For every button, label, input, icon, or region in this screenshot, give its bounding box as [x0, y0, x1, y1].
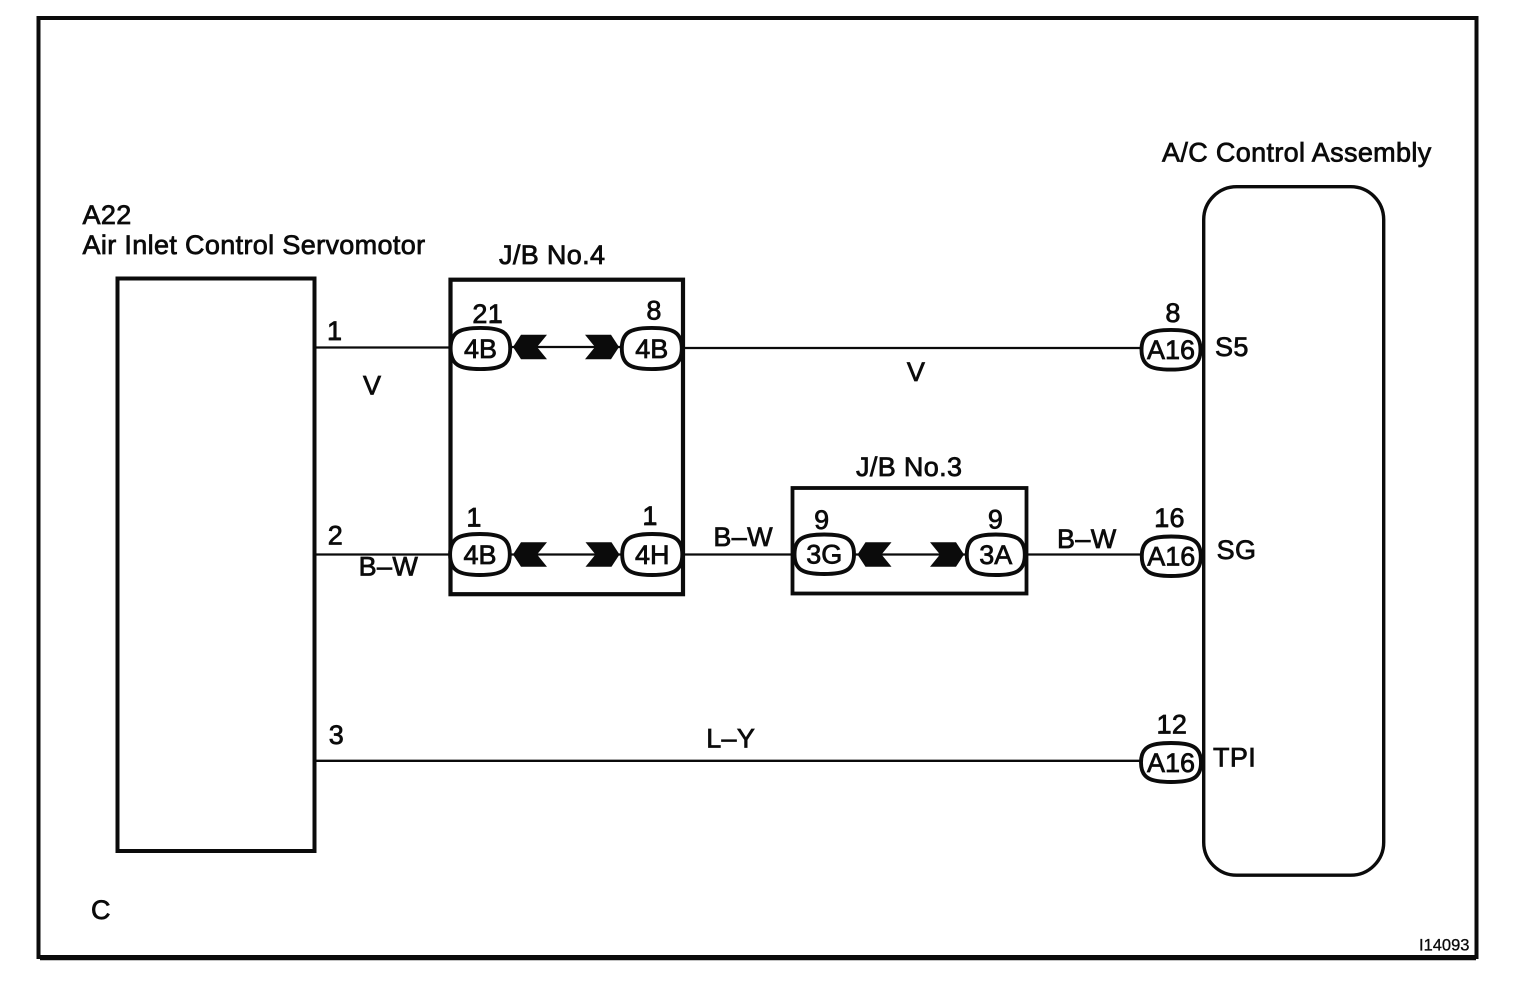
terminal 4B pin 8 — [622, 328, 682, 369]
connector A22 Air Inlet Control Servomotor label — [83, 200, 426, 260]
wire 3 segment servomotor pin3 to A/C control assembly — [316, 760, 1141, 762]
svg-text:3G: 3G — [806, 540, 842, 570]
svg-text:B–W: B–W — [1057, 524, 1117, 554]
junction block J/B No.4 box — [451, 280, 684, 595]
svg-text:9: 9 — [988, 505, 1003, 535]
svg-text:V: V — [363, 371, 381, 401]
svg-text:4H: 4H — [635, 540, 670, 570]
connector A22 servomotor box — [118, 279, 315, 852]
svg-text:J/B No.4: J/B No.4 — [499, 240, 605, 270]
svg-text:C: C — [91, 895, 111, 925]
wire 2 internal J/B No.3 link — [855, 553, 966, 555]
terminal 3G pin 9 — [795, 535, 855, 575]
svg-text:L–Y: L–Y — [706, 723, 755, 753]
svg-text:4B: 4B — [635, 334, 668, 364]
svg-text:16: 16 — [1154, 503, 1185, 533]
svg-text:12: 12 — [1157, 710, 1188, 740]
wire 1 internal J/B No.4 link — [510, 346, 622, 348]
svg-text:1: 1 — [327, 316, 342, 346]
svg-text:3: 3 — [329, 720, 344, 750]
svg-text:A22: A22 — [83, 200, 132, 230]
svg-text:8: 8 — [646, 296, 661, 326]
svg-text:4B: 4B — [464, 334, 497, 364]
svg-text:Air Inlet Control Servomotor: Air Inlet Control Servomotor — [83, 230, 426, 260]
terminal A16 pin 8 — [1142, 330, 1201, 370]
svg-text:I14093: I14093 — [1419, 937, 1469, 955]
svg-text:8: 8 — [1165, 298, 1180, 328]
wire 2 internal J/B No.4 link — [510, 553, 622, 555]
wire 2 segment J/B No.3 to A/C control assembly — [1026, 553, 1141, 555]
terminal 4B pin 21 — [451, 328, 511, 369]
svg-text:A16: A16 — [1147, 335, 1195, 365]
svg-text:SG: SG — [1217, 535, 1257, 565]
terminal 4H pin 1 — [622, 534, 682, 575]
svg-text:21: 21 — [472, 299, 503, 329]
svg-text:9: 9 — [814, 505, 829, 535]
terminal A16 pin 12 — [1141, 743, 1201, 782]
svg-text:S5: S5 — [1215, 332, 1249, 362]
terminal 3A pin 9 — [967, 535, 1025, 576]
connector A16 A/C Control Assembly box — [1204, 187, 1384, 876]
svg-text:V: V — [907, 357, 925, 387]
svg-text:A16: A16 — [1147, 748, 1195, 778]
svg-text:1: 1 — [642, 501, 657, 531]
wire 1 segment J/B No.4 to A/C control assembly — [684, 347, 1142, 349]
svg-text:A16: A16 — [1147, 542, 1195, 572]
junction arrows J/B No.4 wire 2 — [513, 542, 620, 566]
junction block J/B No.3 box — [793, 488, 1027, 594]
terminal 4B pin 1 — [450, 534, 510, 575]
svg-text:TPI: TPI — [1213, 743, 1256, 773]
svg-text:B–W: B–W — [359, 552, 419, 582]
svg-text:1: 1 — [466, 503, 481, 533]
wire 2 segment J/B No.4 to J/B No.3 — [685, 553, 794, 555]
wire 1 segment servomotor pin1 to J/B No.4 — [316, 346, 450, 348]
svg-text:B–W: B–W — [713, 522, 773, 552]
junction arrows J/B No.4 wire 1 — [513, 335, 619, 359]
svg-text:A/C Control Assembly: A/C Control Assembly — [1162, 138, 1432, 168]
svg-text:2: 2 — [328, 521, 343, 551]
svg-text:3A: 3A — [979, 540, 1012, 570]
wire 2 segment servomotor pin2 to J/B No.4 — [316, 553, 450, 555]
junction arrows J/B No.3 wire 2 — [858, 542, 965, 566]
terminal A16 pin 16 — [1142, 537, 1201, 577]
svg-text:4B: 4B — [463, 540, 496, 570]
svg-text:J/B No.3: J/B No.3 — [856, 452, 962, 482]
